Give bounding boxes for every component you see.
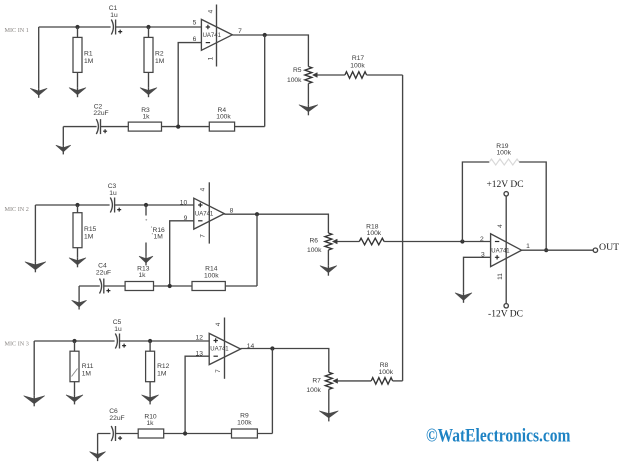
node summing junction stage1 <box>176 125 180 129</box>
node summing junction stage2 <box>168 284 172 288</box>
potentiometer R5 100k <box>287 67 312 105</box>
resistor R19 100k (faint) <box>489 143 519 165</box>
wiper R5 <box>313 73 345 78</box>
svg-text:100k: 100k <box>350 62 365 69</box>
svg-text:2: 2 <box>480 236 484 243</box>
pin 9 label <box>184 215 188 222</box>
ground C2 <box>56 127 71 155</box>
svg-text:1k: 1k <box>146 420 154 427</box>
resistor R14 100k <box>192 265 225 290</box>
svg-text:1M: 1M <box>157 370 167 377</box>
wire feedback right vertical <box>519 162 546 250</box>
svg-text:C3: C3 <box>108 183 117 190</box>
node summing junction stage3 <box>183 431 187 435</box>
ground C4 <box>72 286 87 310</box>
watermark WatElectronics.com <box>426 426 571 447</box>
terminal -12V DC <box>488 304 523 320</box>
resistor R8 100k <box>371 362 393 384</box>
svg-text:R7: R7 <box>312 377 321 384</box>
resistor R9 100k <box>232 413 258 439</box>
svg-text:C6: C6 <box>109 408 118 415</box>
wire stage3 input rail <box>34 340 209 342</box>
resistor R17 100k <box>345 55 367 78</box>
svg-text:UA741: UA741 <box>195 211 214 217</box>
svg-text:6: 6 <box>193 36 197 43</box>
svg-text:100k: 100k <box>496 149 511 156</box>
svg-text:22uF: 22uF <box>109 415 124 422</box>
op-amp U2 UA741 <box>194 198 225 229</box>
wiper R7 <box>333 379 371 384</box>
resistor R13 1k <box>125 265 153 290</box>
ground R6 <box>320 266 337 276</box>
node R15 junction <box>75 203 79 207</box>
svg-text:OUT: OUT <box>599 242 619 253</box>
wire U1 output to pot R5 <box>232 35 308 67</box>
pin 8 label <box>230 207 234 214</box>
svg-text:UA741: UA741 <box>203 33 222 39</box>
node R1 junction <box>75 25 79 29</box>
wire U4 output <box>522 249 594 251</box>
svg-text:1M: 1M <box>82 370 92 377</box>
svg-text:UA741: UA741 <box>210 347 229 353</box>
capacitor C3 1u <box>108 183 121 213</box>
ground R5 <box>299 105 318 116</box>
svg-text:100k: 100k <box>306 387 321 394</box>
svg-text:100k: 100k <box>237 419 252 426</box>
ground R16 <box>139 256 153 265</box>
wire stage1 input rail <box>39 26 202 28</box>
svg-text:100k: 100k <box>287 77 302 84</box>
wire stage3 feedback row <box>98 433 273 435</box>
wire R8 to bus <box>393 380 403 382</box>
svg-text:R12: R12 <box>157 363 170 370</box>
pin 5 label <box>193 20 197 27</box>
wire pin9 to summing junction <box>170 221 194 286</box>
svg-text:1u: 1u <box>109 190 117 197</box>
pin 3 label <box>481 252 485 259</box>
pin 2 label <box>480 236 484 243</box>
wire pin6 to summing junction <box>178 43 201 127</box>
potentiometer R6 100k <box>307 233 332 266</box>
wire U3 output to pot R7 <box>241 349 329 373</box>
svg-text:8: 8 <box>230 207 234 214</box>
op-amp U4 power rail <box>497 196 506 304</box>
ground R2 <box>140 88 157 98</box>
resistor R16 1M (faint body) <box>145 205 165 256</box>
svg-text:R14: R14 <box>205 265 218 272</box>
wire pin13 to summing junction <box>185 356 209 433</box>
svg-text:+12V DC: +12V DC <box>486 180 523 190</box>
node R11 junction <box>72 339 76 343</box>
node U3 output junction <box>270 346 274 350</box>
svg-text:C4: C4 <box>98 262 107 269</box>
capacitor C5 1u <box>113 319 126 349</box>
svg-text:7: 7 <box>238 28 242 35</box>
svg-text:R1: R1 <box>84 51 93 58</box>
wire U2 feedback vertical <box>256 214 258 286</box>
svg-text:100k: 100k <box>216 113 231 120</box>
svg-text:100k: 100k <box>204 272 219 279</box>
svg-text:100k: 100k <box>307 247 322 254</box>
resistor R4 100k <box>209 107 234 131</box>
svg-text:1M: 1M <box>84 233 94 240</box>
ground R12 <box>142 395 159 405</box>
terminal +12V DC <box>486 180 523 196</box>
pin 12 label <box>195 335 203 342</box>
ground R11 <box>66 395 83 405</box>
ground C6 <box>90 434 106 462</box>
svg-text:4: 4 <box>208 9 215 13</box>
potentiometer R7 100k <box>306 372 332 411</box>
svg-text:-12V DC: -12V DC <box>488 310 523 320</box>
op-amp U3 UA741 <box>209 333 240 364</box>
svg-text:12: 12 <box>195 335 203 342</box>
resistor R2 1M <box>144 27 165 88</box>
capacitor C4 22uF <box>96 262 111 293</box>
wire stage2 input rail <box>35 204 193 206</box>
resistor R10 1k <box>138 413 164 438</box>
node feedback tap junction <box>460 239 464 243</box>
pin 7 label <box>238 28 242 35</box>
terminal OUT <box>593 242 619 253</box>
svg-text:1M: 1M <box>155 58 165 65</box>
node MIC IN 2 <box>5 206 29 213</box>
svg-text:5: 5 <box>193 20 197 27</box>
svg-text:’: ’ <box>151 227 152 233</box>
wire stage1 feedback row <box>63 126 264 128</box>
svg-text:R11: R11 <box>82 363 94 370</box>
svg-text:C5: C5 <box>113 319 122 326</box>
wire U2 output to pot R6 <box>224 214 328 233</box>
resistor R12 1M <box>146 341 170 395</box>
ground mic1 <box>30 27 47 98</box>
ground mic2 <box>25 205 46 272</box>
svg-text:100k: 100k <box>379 369 394 376</box>
resistor R18 100k <box>359 224 384 245</box>
op-amp U1 UA741 power pins <box>208 5 217 67</box>
svg-text:R15: R15 <box>84 226 97 233</box>
svg-text:7: 7 <box>215 369 222 373</box>
pin 10 label <box>180 199 188 206</box>
node output junction <box>544 248 548 252</box>
resistor R1 1M <box>73 27 94 88</box>
svg-text:R17: R17 <box>352 55 365 62</box>
wiper R6 <box>332 239 359 244</box>
svg-text:4: 4 <box>497 224 504 228</box>
svg-text:1k: 1k <box>138 272 146 279</box>
svg-text:R6: R6 <box>309 238 318 245</box>
svg-text:UA741: UA741 <box>491 249 510 255</box>
svg-text:22uF: 22uF <box>96 269 111 276</box>
op-amp U3 UA741 power pins <box>215 318 225 379</box>
ground R15 <box>69 258 86 268</box>
svg-text:1u: 1u <box>114 326 122 333</box>
svg-text:MIC IN 1: MIC IN 1 <box>5 27 29 34</box>
wire R17 to bus <box>367 74 403 76</box>
svg-text:11: 11 <box>497 273 504 280</box>
node U2 output junction <box>255 212 259 216</box>
pin 1 label <box>526 243 530 250</box>
node R2 junction <box>146 25 150 29</box>
svg-text:MIC IN 2: MIC IN 2 <box>5 206 29 213</box>
wire pin3 to ground <box>464 257 491 293</box>
node MIC IN 1 <box>5 27 29 34</box>
svg-text:1M: 1M <box>84 58 94 65</box>
wire U3 feedback vertical <box>271 349 273 434</box>
ground U4 pin3 <box>455 293 472 303</box>
svg-text:’: ’ <box>152 233 153 239</box>
wire feedback left vertical <box>462 162 489 242</box>
pin 6 label <box>193 36 197 43</box>
svg-text:100k: 100k <box>367 230 382 237</box>
svg-text:R2: R2 <box>155 51 164 58</box>
ground R1 <box>69 88 86 98</box>
svg-text:1: 1 <box>208 56 215 60</box>
node R12 junction <box>148 339 152 343</box>
svg-text:©WatElectronics.com: ©WatElectronics.com <box>426 426 571 447</box>
svg-text:C1: C1 <box>109 5 118 12</box>
svg-text:22uF: 22uF <box>93 110 108 117</box>
op-amp U4 UA741 <box>491 234 522 267</box>
wire summing bus vertical <box>402 75 404 381</box>
svg-text:R5: R5 <box>293 67 302 74</box>
capacitor C6 22uF <box>109 408 124 441</box>
wire U1 feedback vertical <box>264 35 266 127</box>
svg-text:1k: 1k <box>142 113 150 120</box>
node U1 output junction <box>263 33 267 37</box>
svg-text:7: 7 <box>200 234 207 238</box>
node MIC IN 3 <box>5 340 29 347</box>
resistor R11 1M <box>70 341 94 395</box>
resistor R3 1k <box>128 107 161 131</box>
ground R7 <box>319 411 338 422</box>
svg-text:MIC IN 3: MIC IN 3 <box>5 340 29 347</box>
wire R18 to U4 pin2 <box>384 241 491 243</box>
wire stage2 feedback row <box>79 285 257 287</box>
pin 13 label <box>195 350 203 357</box>
resistor R15 1M <box>73 205 97 258</box>
svg-text:4: 4 <box>200 187 207 191</box>
capacitor C1 1u <box>109 5 122 35</box>
svg-text:4: 4 <box>215 322 222 326</box>
svg-text:10: 10 <box>180 199 188 206</box>
svg-text:1: 1 <box>526 243 530 250</box>
svg-text:1M: 1M <box>154 233 164 240</box>
op-amp U1 UA741 <box>201 19 232 50</box>
op-amp U2 UA741 power pins <box>200 182 210 243</box>
capacitor C2 22uF <box>93 104 108 135</box>
ground mic3 <box>24 341 45 406</box>
svg-text:1u: 1u <box>110 12 118 19</box>
node R16 junction <box>144 203 148 207</box>
pin 14 label <box>247 343 255 350</box>
